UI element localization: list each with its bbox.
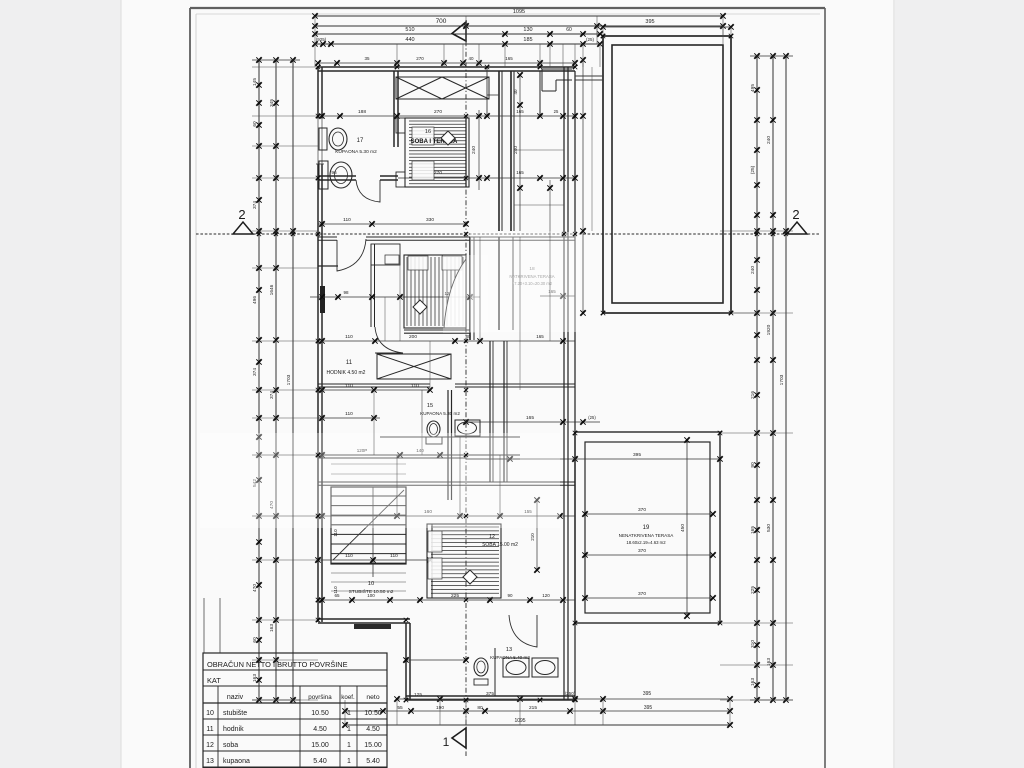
svg-text:374: 374: [269, 391, 275, 399]
svg-text:1703: 1703: [286, 374, 292, 385]
svg-text:110: 110: [390, 553, 398, 559]
svg-text:KAT: KAT: [207, 676, 221, 685]
bath17 toilet bowl: [329, 128, 347, 150]
dim line y297: [310, 296, 480, 298]
watermark wash a: [470, 232, 580, 332]
drawing frame border: [189, 8, 191, 768]
bottom wall: [406, 695, 575, 697]
left dimension chain C: [292, 60, 294, 700]
bottom dimension line row B: [345, 710, 730, 712]
bath13 partition: [494, 648, 496, 696]
svg-text:125: 125: [414, 692, 422, 698]
svg-text:11: 11: [206, 726, 213, 733]
svg-text:163: 163: [252, 674, 258, 682]
bath17 toilet tank: [319, 128, 327, 150]
table header obracun: [203, 669, 387, 671]
bath15 toilet: [426, 437, 442, 444]
dim line y418: [318, 417, 380, 419]
bath13 sink b: [532, 658, 558, 677]
stairs lower treads: [331, 572, 406, 574]
svg-text:10.50: 10.50: [364, 710, 382, 717]
corridor duct walls x500/x513: [498, 71, 500, 231]
bath17 sink counter: [319, 161, 328, 189]
stair block bottom wall: [318, 618, 410, 620]
svg-text:2: 2: [792, 207, 799, 222]
dim line y516: [318, 515, 575, 517]
svg-text:hodnik: hodnik: [223, 726, 244, 733]
bed2 room right wall x470: [469, 237, 471, 340]
dim line y600: [318, 599, 575, 601]
svg-text:NENATKRIVENA TERASA: NENATKRIVENA TERASA: [619, 533, 675, 538]
lower connector wall: [405, 623, 407, 700]
pool top dim 395: [603, 26, 731, 28]
dim chain between wall and pool: [582, 60, 584, 313]
hodnik top wall y341 (dim line): [318, 340, 575, 342]
left dimension chain A: [258, 60, 260, 700]
section 1 triangle top: [452, 22, 466, 41]
top dimension line 510 130 60: [315, 33, 600, 35]
svg-text:55: 55: [397, 705, 403, 711]
svg-text:345: 345: [269, 99, 275, 107]
terrace dim 395: [510, 458, 720, 460]
svg-text:110: 110: [345, 383, 353, 389]
svg-text:215: 215: [529, 705, 537, 711]
door arc bath17: [356, 180, 380, 202]
svg-text:4.50: 4.50: [366, 726, 380, 733]
bed3 pillow b: [428, 558, 442, 579]
svg-text:80: 80: [477, 705, 483, 711]
svg-text:240: 240: [513, 146, 519, 154]
top-right corner step detail: [542, 68, 572, 70]
stair dim y560: [318, 559, 430, 561]
svg-text:5.40: 5.40: [366, 758, 380, 765]
bed2 frame: [404, 255, 466, 328]
svg-text:165: 165: [505, 56, 513, 61]
svg-text:165: 165: [750, 526, 756, 534]
svg-text:15.00: 15.00: [311, 742, 329, 749]
svg-text:5.40: 5.40: [313, 758, 327, 765]
svg-text:KUPAONA 5.30 m2: KUPAONA 5.30 m2: [420, 411, 460, 416]
svg-text:225: 225: [750, 586, 756, 594]
svg-text:370: 370: [638, 507, 646, 513]
svg-text:310: 310: [750, 640, 756, 648]
section 2 triangle right: [787, 222, 807, 234]
svg-text:90: 90: [507, 593, 513, 598]
wall under bed2 room y330: [404, 329, 470, 331]
svg-text:13: 13: [506, 647, 512, 653]
svg-text:495: 495: [750, 84, 756, 92]
table row 13: [203, 766, 387, 768]
svg-text:374: 374: [252, 201, 258, 209]
svg-text:163: 163: [269, 624, 275, 632]
bottom wall window bar: [354, 624, 391, 629]
svg-text:370: 370: [638, 548, 646, 554]
top dimension line 700 / 395: [315, 25, 723, 27]
svg-text:1: 1: [347, 726, 351, 733]
stair landing lines: [331, 463, 406, 465]
top dimension line 925 440 185 25: [315, 43, 600, 45]
bed3 pillow a: [428, 531, 442, 552]
svg-text:216: 216: [750, 391, 756, 399]
dim line y178: [398, 177, 575, 179]
svg-text:površina: površina: [308, 694, 332, 701]
svg-text:stubište: stubište: [223, 710, 247, 717]
mid-lower wall y437: [380, 436, 520, 438]
svg-text:165: 165: [526, 415, 534, 421]
room16 compass diamond: [441, 131, 455, 145]
svg-text:330: 330: [426, 217, 434, 223]
niche rect: [371, 244, 400, 265]
duct walls lower extension: [489, 341, 491, 482]
vertical dim x550: [549, 180, 551, 231]
left extension lines: [252, 66, 318, 68]
table row 11: [203, 734, 387, 736]
svg-text:16: 16: [425, 129, 431, 135]
middle extension verticals: [384, 297, 386, 341]
table row 12: [203, 750, 387, 752]
svg-text:395: 395: [643, 691, 652, 697]
small wall y266: [318, 265, 338, 267]
svg-text:18.60x2.19=4.63 m2: 18.60x2.19=4.63 m2: [626, 540, 666, 545]
svg-text:40: 40: [513, 89, 518, 95]
svg-text:koef.: koef.: [341, 694, 355, 701]
bed3 diamond: [463, 570, 477, 584]
left grey backdrop: [0, 0, 121, 768]
dim line y116: [318, 115, 575, 117]
hall verticals: [479, 237, 481, 341]
partition x540 top block: [539, 71, 541, 116]
wall junction ticks: [316, 65, 321, 70]
table column header row: [203, 702, 387, 704]
vertical dim x520 40/240: [519, 75, 521, 231]
svg-text:145: 145: [252, 78, 258, 86]
svg-text:25: 25: [554, 109, 559, 114]
svg-text:270: 270: [434, 170, 442, 176]
svg-text:soba: soba: [223, 742, 238, 749]
svg-text:neto: neto: [366, 694, 379, 701]
top extension lines: [314, 44, 316, 67]
vertical dim x537 room12: [536, 500, 538, 570]
right dimension chain A: [756, 56, 758, 700]
right extension lines: [720, 230, 793, 232]
svg-text:19: 19: [643, 525, 650, 531]
table pre-extension lines: [203, 598, 205, 653]
svg-text:370: 370: [638, 591, 646, 597]
section line 2 (horizontal dashed): [196, 233, 820, 235]
svg-text:SOBA 15.00 m2: SOBA 15.00 m2: [482, 542, 518, 548]
svg-text:530: 530: [766, 524, 772, 532]
dim line y422 right: [466, 421, 600, 423]
pool-building connector: [575, 75, 603, 77]
outer wall left: [317, 67, 319, 622]
svg-text:496: 496: [252, 296, 258, 304]
svg-text:2: 2: [238, 207, 245, 222]
bath13 door arc: [509, 615, 537, 647]
svg-text:15: 15: [427, 403, 433, 409]
middle block top wall y237: [318, 236, 337, 238]
terrace 19 outer: [575, 432, 720, 623]
bottom dimension line row A: [397, 698, 730, 700]
section line 1 (vertical dash-dot): [465, 20, 467, 756]
svg-text:80: 80: [465, 334, 471, 339]
svg-text:270: 270: [434, 109, 442, 115]
page edge lines: [120, 0, 122, 768]
wall-top dimension line: [318, 62, 575, 64]
terrace dim 370 c: [585, 597, 713, 599]
section 2 triangle left: [233, 222, 253, 234]
hall right dim y296: [540, 295, 575, 297]
bath15 sink: [455, 420, 480, 436]
svg-text:110: 110: [333, 586, 338, 594]
svg-text:1: 1: [347, 742, 351, 749]
svg-text:200: 200: [409, 334, 417, 340]
watermark wash c: [443, 255, 488, 333]
table row 10: [203, 718, 387, 720]
svg-text:163: 163: [750, 678, 756, 686]
bath13 toilet: [474, 658, 488, 676]
svg-text:1095: 1095: [513, 9, 525, 15]
door arc hodnik-room12: [375, 327, 403, 353]
svg-text:185: 185: [523, 37, 532, 43]
svg-text:450: 450: [680, 524, 686, 532]
vertical dim x479 bed1 240: [478, 110, 480, 190]
pool inner: [612, 45, 723, 303]
svg-text:1: 1: [347, 710, 351, 717]
svg-text:60: 60: [252, 121, 258, 127]
svg-text:395: 395: [633, 452, 641, 458]
wardrobe room16: [396, 77, 489, 99]
svg-text:40: 40: [468, 56, 474, 61]
svg-text:240: 240: [766, 136, 772, 144]
left wall window: [317, 118, 324, 164]
bed2 pillow a: [408, 256, 428, 270]
bed2 diamond: [413, 300, 427, 314]
svg-text:HODNIK 4.50 m2: HODNIK 4.50 m2: [327, 370, 366, 376]
svg-text:240: 240: [750, 266, 756, 274]
upper-right faint partitions: [514, 149, 564, 151]
table header kat: [203, 685, 387, 687]
svg-text:60: 60: [252, 637, 258, 643]
section 1 triangle bottom: [452, 728, 466, 748]
svg-text:188: 188: [358, 109, 366, 115]
svg-text:11: 11: [346, 360, 353, 366]
soba12 top wall y482: [318, 481, 575, 483]
right dimension chain C: [785, 56, 787, 700]
svg-text:110: 110: [343, 217, 351, 223]
watermark wash b: [200, 433, 560, 528]
bath15 right wall: [447, 390, 449, 500]
svg-text:12: 12: [206, 742, 214, 749]
svg-text:1920: 1920: [766, 324, 772, 335]
bath13 sink a: [503, 658, 529, 677]
svg-text:12: 12: [489, 534, 495, 540]
svg-text:90: 90: [750, 462, 756, 468]
bed3 frame: [427, 524, 501, 598]
hodnik closet: [377, 354, 451, 379]
svg-text:60: 60: [566, 27, 572, 33]
svg-text:35: 35: [364, 56, 370, 61]
wall bath17/room16: [393, 71, 395, 147]
svg-text:(925): (925): [316, 37, 327, 42]
svg-text:110: 110: [345, 553, 353, 559]
svg-text:130: 130: [523, 27, 532, 33]
dim line y660 small: [406, 659, 466, 661]
table column lines: [217, 686, 219, 768]
svg-text:(25): (25): [750, 165, 756, 174]
bed2 pillow b: [442, 256, 462, 270]
svg-text:KUPAONA 5.30 m2: KUPAONA 5.30 m2: [335, 149, 377, 155]
bedside table b: [396, 172, 405, 187]
top dimension line 1095: [315, 15, 723, 17]
svg-text:STUBIŠTE 10.50 m2: STUBIŠTE 10.50 m2: [349, 588, 394, 595]
outer wall right (double skin): [563, 67, 565, 700]
bed room16: [405, 118, 469, 187]
terrace dim 370 b: [585, 554, 713, 556]
table outer: [203, 653, 387, 768]
svg-text:110: 110: [345, 411, 353, 417]
bed16 pillow b: [412, 161, 434, 180]
svg-text:270: 270: [416, 56, 424, 61]
svg-text:1: 1: [443, 735, 450, 749]
svg-text:395: 395: [645, 19, 654, 25]
bottom extension lines: [344, 700, 346, 725]
terrace dim 370 a: [585, 513, 713, 515]
svg-text:10.50: 10.50: [311, 710, 329, 717]
bed2 door wedge (white overlay): [444, 259, 466, 328]
svg-text:17: 17: [357, 138, 364, 144]
terrace 19 inner: [585, 442, 710, 613]
bedside table a: [396, 118, 405, 133]
svg-text:470: 470: [252, 584, 258, 592]
left dimension chain B: [275, 60, 277, 700]
right grey backdrop: [895, 0, 1024, 768]
svg-text:440: 440: [405, 37, 414, 43]
svg-text:15.00: 15.00: [364, 742, 382, 749]
svg-text:98: 98: [343, 290, 349, 295]
svg-text:110: 110: [345, 334, 353, 340]
svg-text:374: 374: [252, 368, 258, 376]
svg-text:10: 10: [368, 581, 374, 587]
svg-text:(25): (25): [586, 37, 595, 42]
bottom dimension line row C: [345, 724, 730, 726]
dim line y455 labels: [318, 454, 466, 456]
svg-text:kupaona: kupaona: [223, 758, 250, 765]
svg-text:1703: 1703: [779, 374, 785, 385]
svg-text:240: 240: [471, 146, 477, 154]
bath15 bottom wall y457: [318, 454, 466, 456]
outer wall top: [318, 66, 575, 68]
right dimension chain B: [772, 56, 774, 700]
stairwell inner wall x371: [370, 244, 372, 327]
svg-text:1646: 1646: [269, 284, 275, 295]
svg-text:210: 210: [530, 533, 535, 541]
svg-text:(25): (25): [588, 415, 596, 420]
section crossing ticks: [257, 232, 261, 236]
svg-text:110: 110: [333, 529, 338, 537]
bath17 sink bowl: [330, 162, 352, 188]
pool outer: [603, 36, 731, 313]
dim line y390: [318, 389, 430, 391]
pier filled: [320, 286, 325, 313]
bath17 bottom wall: [318, 175, 356, 177]
svg-text:13: 13: [206, 758, 214, 765]
dim line y224: [318, 223, 466, 225]
svg-text:naziv: naziv: [227, 694, 244, 701]
svg-text:120: 120: [542, 593, 550, 598]
hodnik bottom wall y386: [318, 383, 430, 385]
svg-text:510: 510: [405, 27, 414, 33]
terrace vertical dim 450: [686, 440, 688, 616]
svg-text:395: 395: [644, 705, 653, 711]
svg-text:110: 110: [411, 383, 419, 389]
svg-text:700: 700: [436, 18, 447, 25]
svg-text:165: 165: [536, 334, 544, 339]
door arc at y237: [337, 239, 366, 271]
bed16 pillow a: [412, 127, 434, 145]
svg-text:4.50: 4.50: [313, 726, 327, 733]
svg-text:OBRAČUN NETTO I BRUTTO POVRŠIN: OBRAČUN NETTO I BRUTTO POVRŠINE: [207, 660, 348, 669]
staircase: [331, 487, 406, 564]
svg-text:1: 1: [347, 758, 351, 765]
svg-text:10: 10: [206, 710, 214, 717]
